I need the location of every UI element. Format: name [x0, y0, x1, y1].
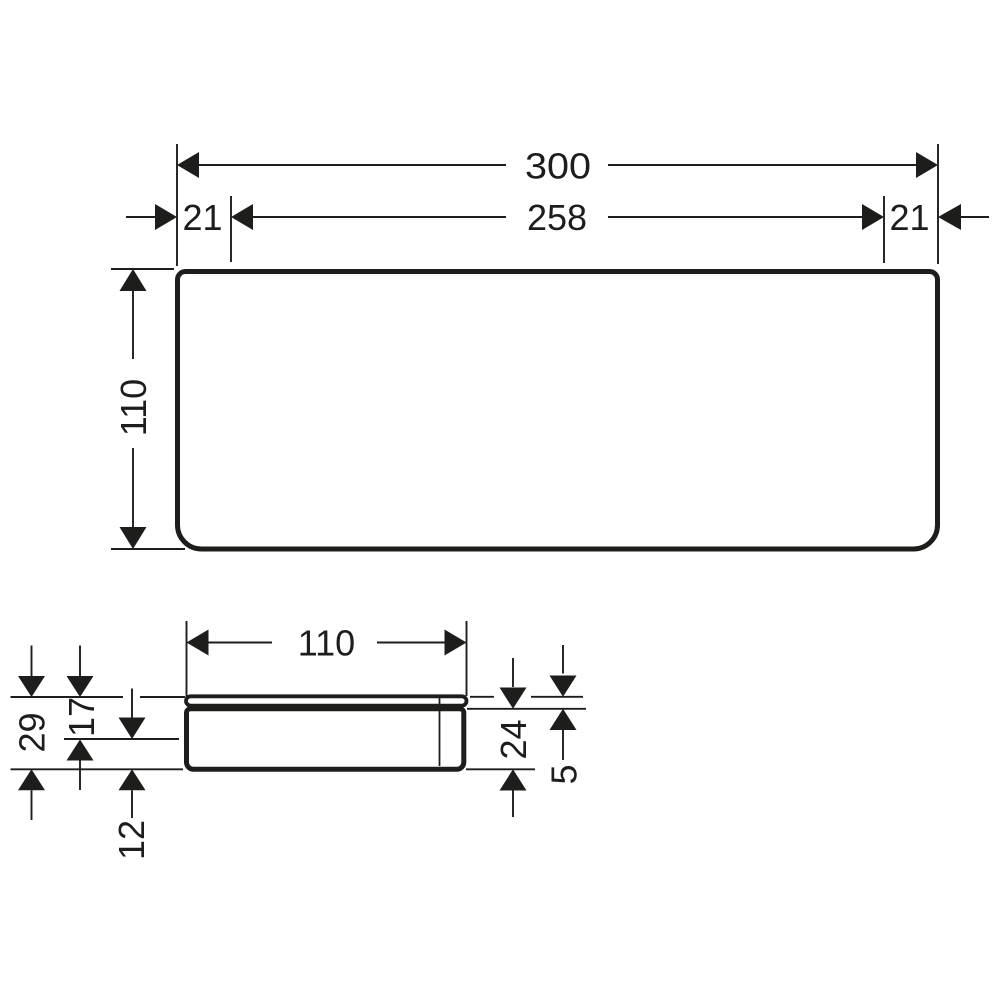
dim 12 top arrow	[119, 718, 146, 740]
dim 17 bottom arrow	[67, 740, 94, 761]
extension line inner-right x=884	[883, 196, 885, 263]
side view: glass plate	[186, 696, 467, 705]
dim 110 top view: arrow down	[120, 527, 147, 549]
dim 5 top stem	[562, 645, 564, 674]
dim 300 line	[199, 164, 916, 166]
dim 258 arrow left	[231, 204, 253, 230]
side view: body	[187, 709, 464, 770]
side view: inner feature line	[439, 698, 441, 767]
svg-text:21: 21	[182, 197, 222, 238]
dim 110 top view: stems	[132, 291, 134, 527]
dim 21 right tail	[961, 216, 989, 218]
dim 29 top arrow	[18, 676, 45, 697]
dim 12 bottom stem	[131, 790, 133, 818]
dim 258 line	[253, 216, 862, 218]
dim 24 bottom arrow	[500, 769, 527, 790]
side view: reference line 1 (top of plate, right)	[470, 696, 583, 698]
extension line left x=177	[176, 144, 178, 266]
dim 110 top view: extension bottom	[111, 548, 185, 550]
dim 300 arrow right	[916, 152, 938, 178]
extension line inner-left x=231	[230, 196, 232, 262]
svg-text:24: 24	[493, 719, 534, 759]
side view: reference line B (17 below top, left)	[64, 738, 179, 740]
extension line right x=938	[937, 144, 939, 264]
dim 24 top stem	[512, 658, 514, 687]
dim 5 top arrow	[550, 676, 577, 697]
svg-text:17: 17	[61, 697, 102, 737]
svg-text:21: 21	[889, 197, 929, 238]
dim 21 right arrow	[938, 204, 961, 230]
dim 300 arrow left	[177, 152, 199, 178]
dim 258 arrow right	[862, 204, 884, 230]
dim 110 side: arrow left	[187, 630, 209, 656]
svg-text:300: 300	[525, 146, 591, 187]
side view: reference line C right	[466, 768, 535, 770]
dim 29 bottom arrow	[18, 769, 45, 790]
dim 17 bottom stem	[79, 761, 81, 791]
svg-text:5: 5	[544, 764, 585, 784]
dim 5 bottom arrow	[550, 709, 577, 730]
dim 17 top stem	[79, 646, 81, 677]
dim 24 top arrow	[500, 688, 527, 709]
dim 110 side: arrow right	[445, 630, 467, 656]
side view: reference line C (bottom of body, left)	[11, 768, 184, 770]
side view: reference line 2 (bottom of plate, right)	[467, 708, 586, 710]
side view: reference line A (top of plate, left)	[11, 696, 186, 698]
svg-text:12: 12	[111, 820, 152, 860]
svg-text:110: 110	[298, 623, 355, 664]
dim 110 side: extension right	[466, 621, 468, 696]
svg-text:258: 258	[527, 197, 587, 238]
dim 110 side: extension left	[186, 621, 188, 699]
dim 110 side: line	[209, 642, 445, 644]
dim 12 top stem	[131, 689, 133, 718]
dim 29 top stem	[31, 646, 33, 677]
dim 5 bottom stem	[562, 730, 564, 760]
dim 110 top view: extension top	[111, 268, 174, 270]
dim 29 bottom stem	[31, 790, 33, 820]
dim 17 top arrow	[67, 676, 94, 697]
dim 24 bottom stem	[512, 791, 514, 818]
dim 110 top view: arrow up	[120, 269, 147, 291]
dim 12 bottom arrow	[119, 769, 146, 790]
svg-text:29: 29	[11, 712, 52, 752]
svg-text:110: 110	[113, 379, 154, 436]
top view: shelf outline	[178, 272, 938, 550]
dim 21 left tail	[126, 216, 155, 218]
dim 21 left arrow	[155, 204, 177, 230]
